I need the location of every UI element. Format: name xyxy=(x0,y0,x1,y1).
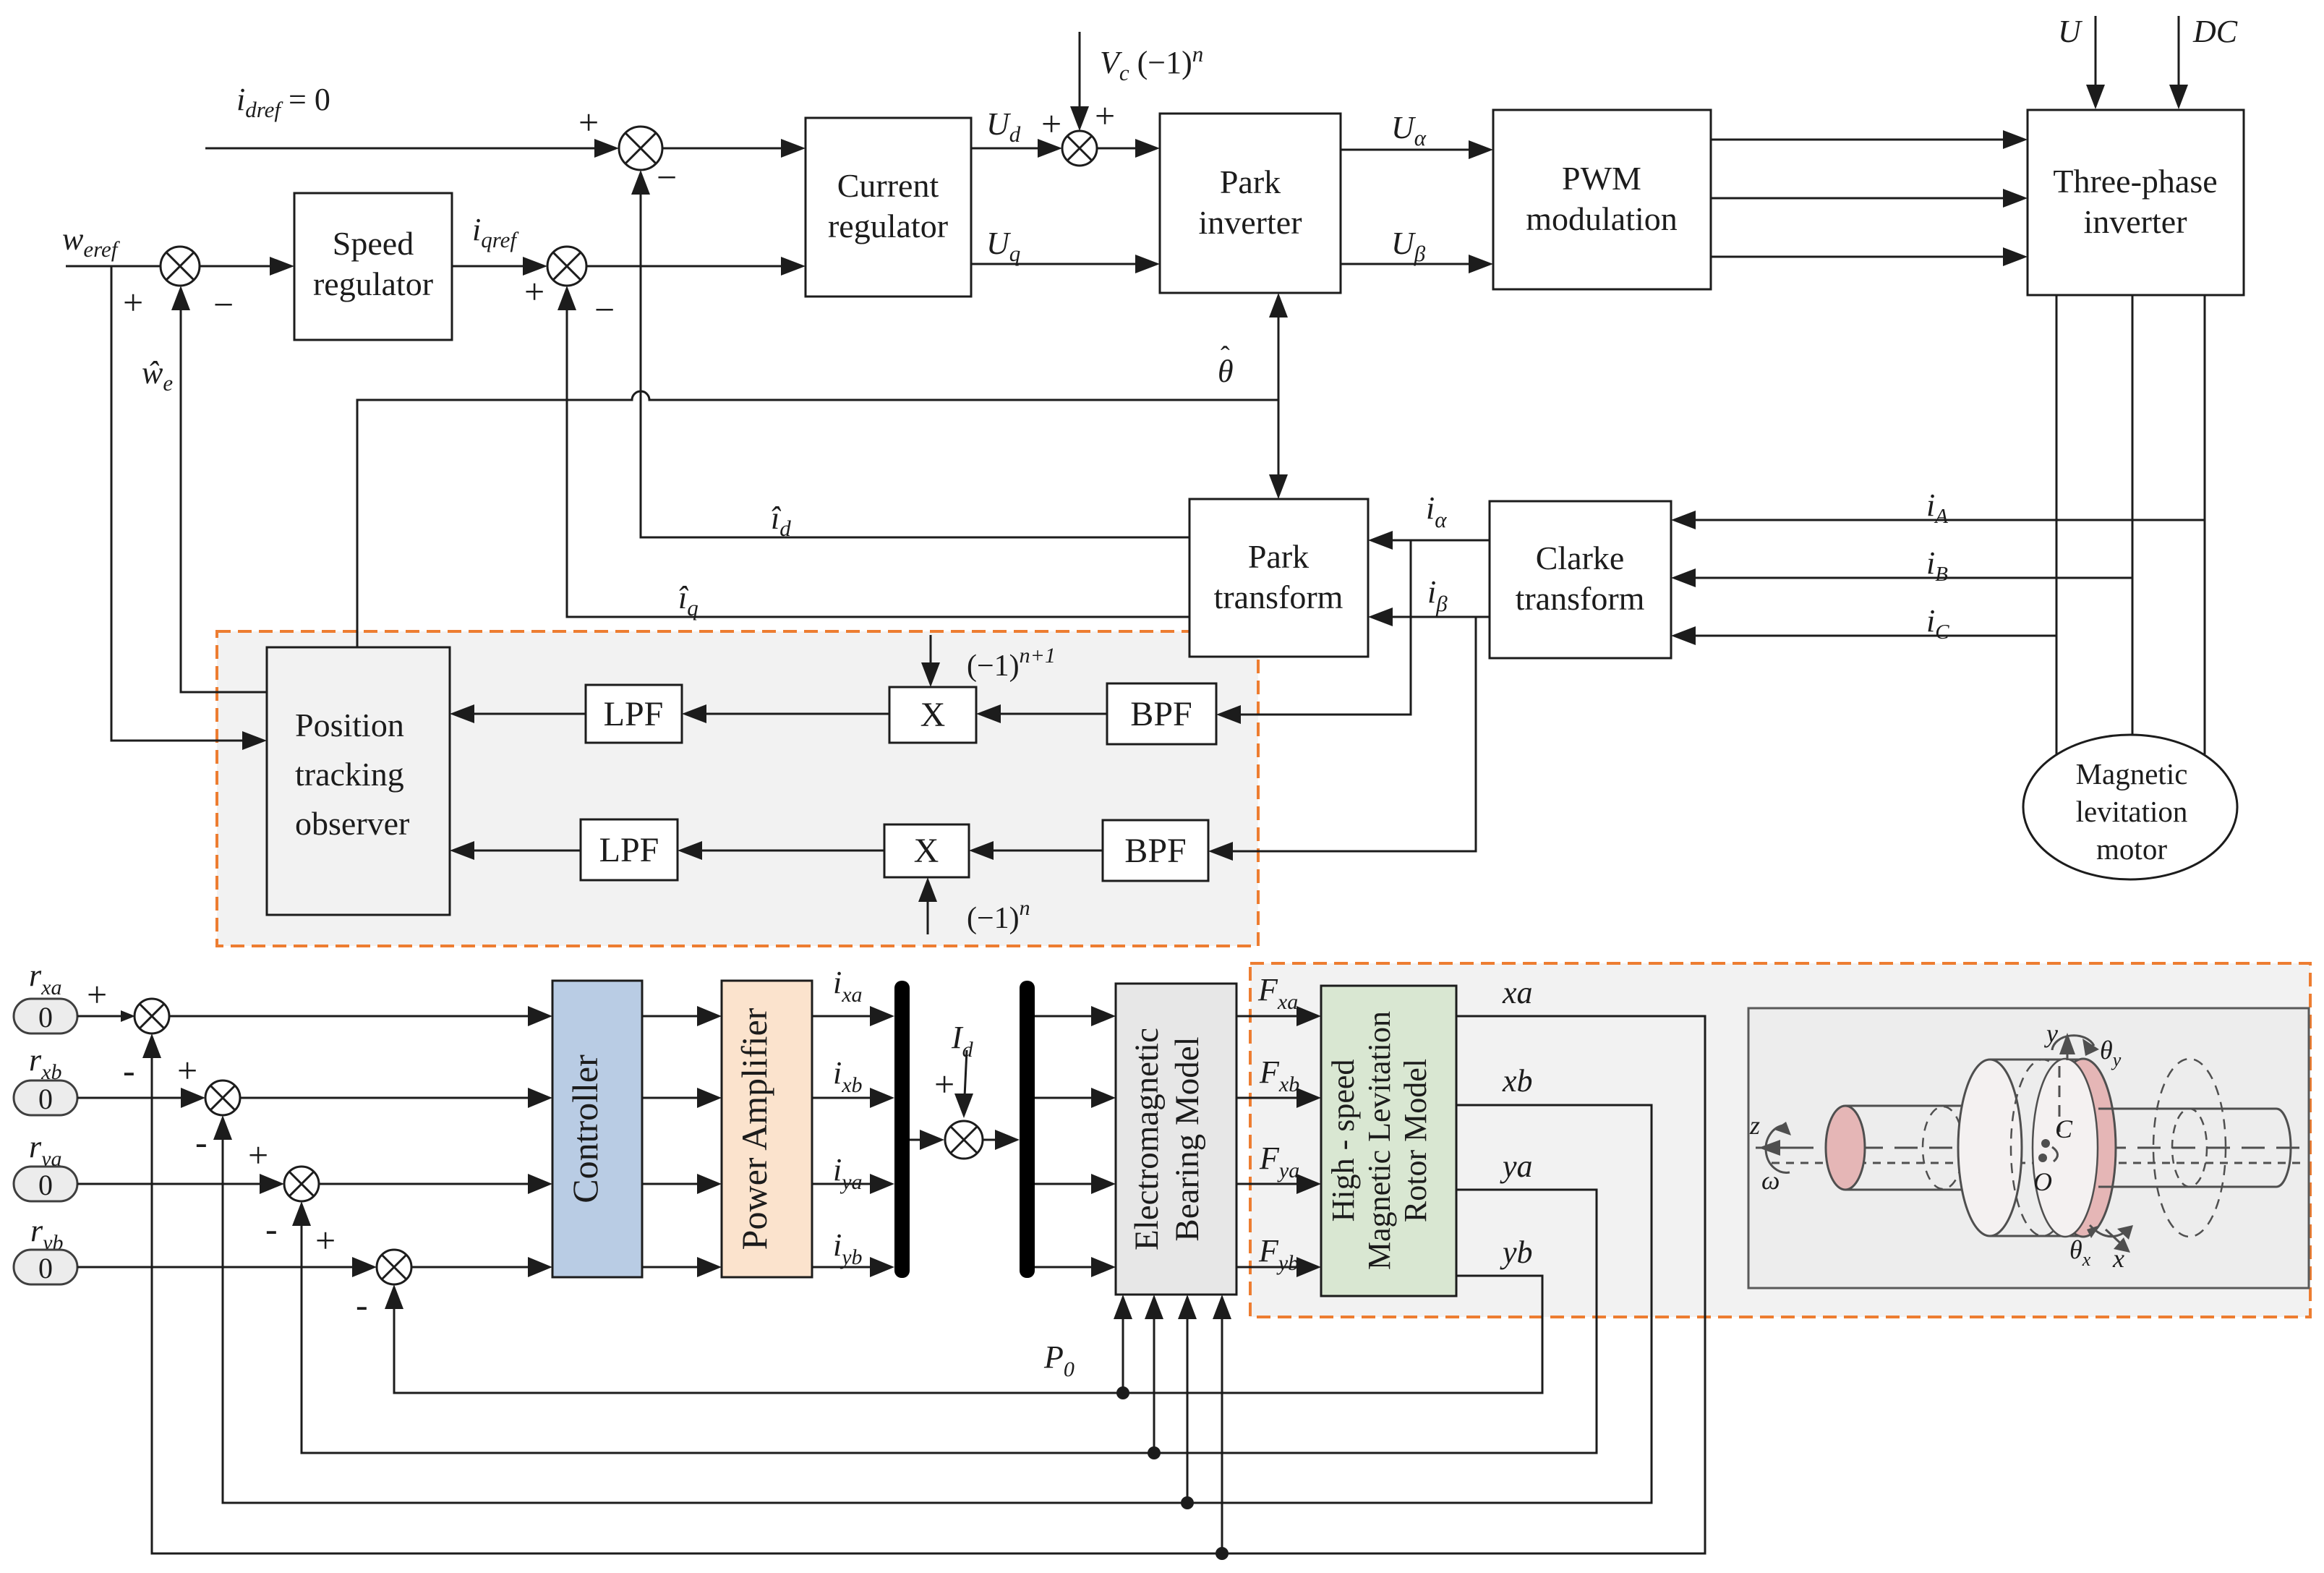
wire F_ya bearing to rotor xyxy=(1236,1174,1321,1194)
wire inverter phase A drop xyxy=(2056,295,2058,754)
svg-text:−: − xyxy=(594,289,615,330)
svg-text:0: 0 xyxy=(38,1001,53,1033)
wire U_alpha to PWM xyxy=(1341,140,1493,159)
wire bus1 to Id junction xyxy=(910,1130,944,1150)
small hook arrow at O xyxy=(2052,1147,2058,1161)
node label (-1)^n xyxy=(967,896,1030,935)
wire controller to amplifier row1 xyxy=(642,1006,722,1026)
summing junction S2 (speed) xyxy=(161,247,200,286)
block Position tracking observer xyxy=(267,647,450,915)
svg-text:inverter: inverter xyxy=(1198,204,1302,241)
svg-text:transform: transform xyxy=(1516,580,1645,617)
node label U_d xyxy=(986,106,1021,147)
svg-text:+: + xyxy=(1095,95,1115,136)
label O xyxy=(2033,1167,2052,1196)
dashed radius line to C xyxy=(2059,1066,2061,1132)
wire Id junction to bus2 xyxy=(983,1130,1020,1150)
wire bus2 to bearing row4 xyxy=(1035,1257,1116,1277)
svg-text:Electromagnetic: Electromagnetic xyxy=(1128,1028,1166,1250)
S4 plus sign right xyxy=(1095,95,1115,136)
wire V_c drop into S4 xyxy=(1070,32,1089,131)
right dashed bearing ellipse inner xyxy=(2172,1109,2207,1187)
wire bus2 to bearing row3 xyxy=(1035,1174,1116,1194)
node label i_alpha xyxy=(1426,490,1447,532)
wire X2 to LPF2 xyxy=(678,841,884,860)
svg-text:-: - xyxy=(356,1284,368,1325)
wire bus2 to bearing row2 xyxy=(1035,1088,1116,1108)
svg-text:Vc (−1)n: Vc (−1)n xyxy=(1100,41,1203,85)
node label i_C xyxy=(1926,603,1949,644)
y axis arrow xyxy=(2059,1033,2075,1060)
summing junction S4 (Vc) xyxy=(1062,131,1097,166)
node label F_ya xyxy=(1259,1141,1299,1182)
node label yb xyxy=(1500,1235,1533,1270)
block X row2 xyxy=(884,824,969,877)
wire F_xb bearing to rotor xyxy=(1236,1088,1321,1108)
summing junction J4 xyxy=(377,1250,411,1284)
wire yb feedback loop to J4 xyxy=(385,1276,1542,1393)
wire r_ya to J3 xyxy=(77,1174,284,1194)
wire BPF1 to X1 xyxy=(976,704,1107,723)
svg-text:+: + xyxy=(87,974,107,1015)
svg-text:motor: motor xyxy=(2096,832,2167,866)
block Power Amplifier xyxy=(722,981,812,1277)
node label i_yb xyxy=(833,1227,863,1269)
svg-text:0: 0 xyxy=(38,1252,53,1284)
svg-text:BPF: BPF xyxy=(1130,695,1192,733)
wire (-1)^n+1 into X1 xyxy=(921,635,940,687)
wire J4 to controller xyxy=(411,1257,552,1277)
block Park transform xyxy=(1189,499,1368,657)
svg-text:regulator: regulator xyxy=(828,208,948,244)
svg-text:Magnetic Levitation: Magnetic Levitation xyxy=(1362,1011,1397,1270)
svg-text:+: + xyxy=(177,1050,197,1091)
wire i_alpha branch to BPF1 xyxy=(1216,540,1411,724)
summing junction Id xyxy=(945,1121,983,1159)
wire theta-hat net xyxy=(357,293,1288,647)
svg-text:O: O xyxy=(2033,1167,2052,1196)
wire J2 to controller xyxy=(240,1088,552,1108)
wire PWM to inverter line 1 xyxy=(1711,130,2028,149)
svg-text:-: - xyxy=(195,1122,208,1162)
svg-text:ˆ: ˆ xyxy=(1221,341,1230,372)
block LPF row1 xyxy=(586,685,682,743)
svg-text:transform: transform xyxy=(1214,579,1343,615)
svg-text:0: 0 xyxy=(38,1169,53,1201)
node label i_xa xyxy=(833,965,863,1007)
wire bus2 to bearing row1 xyxy=(1035,1006,1116,1026)
left shaft pink end cap xyxy=(1826,1106,1865,1190)
block X row1 xyxy=(889,687,976,743)
block Three-phase inverter xyxy=(2028,110,2244,295)
reference capsule r_xb = 0 xyxy=(14,1080,77,1115)
node label F_yb xyxy=(1258,1233,1299,1275)
svg-text:ya: ya xyxy=(1500,1148,1533,1184)
left shaft dashed bearing ellipse xyxy=(1923,1107,1963,1189)
wire U_beta to PWM xyxy=(1341,255,1493,273)
svg-text:inverter: inverter xyxy=(2083,203,2187,240)
svg-text:+: + xyxy=(123,282,143,323)
block BPF row1 xyxy=(1107,683,1216,744)
theta_x rotation arc xyxy=(2087,1225,2133,1240)
wire S3 to current regulator xyxy=(586,257,806,276)
J2 plus sign xyxy=(177,1050,197,1091)
svg-text:+: + xyxy=(524,271,544,312)
pink disk band outer xyxy=(2051,1059,2116,1237)
wire controller to amplifier row3 xyxy=(642,1174,722,1194)
svg-text:Park: Park xyxy=(1248,538,1309,575)
wire xb feedback loop to J2 xyxy=(213,1105,1652,1503)
node label U_q xyxy=(986,226,1020,266)
wire iq-hat feedback xyxy=(557,286,1189,617)
S1 plus sign xyxy=(578,102,599,142)
node label i_qref xyxy=(472,212,519,252)
svg-text:levitation: levitation xyxy=(2076,795,2188,828)
svg-text:+: + xyxy=(1041,103,1061,144)
svg-text:Speed: Speed xyxy=(333,225,414,262)
wire amplifier to bus1 row4 xyxy=(812,1257,894,1277)
node label P_0 xyxy=(1043,1339,1075,1381)
left shaft body xyxy=(1845,1106,1993,1190)
node label i_ya xyxy=(833,1152,863,1194)
node label r_xb xyxy=(29,1042,61,1084)
svg-text:+: + xyxy=(578,102,599,142)
label theta_x xyxy=(2069,1235,2091,1270)
J3 plus sign xyxy=(248,1135,268,1175)
svg-text:−: − xyxy=(657,157,677,197)
wire (-1)^n into X2 xyxy=(918,877,937,934)
x axis arrow xyxy=(2106,1229,2130,1253)
svg-text:xb: xb xyxy=(1502,1063,1533,1099)
wire J1 to controller xyxy=(169,1006,552,1026)
svg-text:Park: Park xyxy=(1220,163,1281,200)
node label i_beta xyxy=(1427,574,1448,616)
wire amplifier to bus1 row1 xyxy=(812,1006,894,1026)
node label U_beta xyxy=(1391,226,1426,266)
wire inverter phase B drop xyxy=(2132,295,2134,735)
block High-speed Magnetic Levitation Rotor Model xyxy=(1321,986,1456,1296)
node label r_xa xyxy=(29,958,61,999)
svg-text:Clarke: Clarke xyxy=(1536,540,1625,576)
wire U_d to S4 xyxy=(971,139,1062,158)
ellipse Magnetic levitation motor xyxy=(2023,735,2237,879)
wire xa feedback loop to J1 xyxy=(142,1016,1705,1553)
node label id-hat xyxy=(771,500,791,541)
wire LPF2 to observer xyxy=(450,841,581,860)
bus bar 2 xyxy=(1020,981,1035,1278)
svg-text:+: + xyxy=(315,1220,336,1261)
z axis arrow xyxy=(1759,1140,1802,1156)
summing junction J2 xyxy=(205,1080,240,1115)
wire U_q to park inverter xyxy=(971,255,1160,273)
node label xb xyxy=(1502,1063,1533,1099)
wire i_alpha clarke to park xyxy=(1368,531,1490,550)
node label F_xb xyxy=(1259,1054,1299,1096)
middle cylinder top and bottom lines xyxy=(1990,1060,2083,1236)
wire w_eref branch to observer xyxy=(111,266,267,750)
node label w_eref xyxy=(62,221,121,262)
block Current regulator xyxy=(806,118,971,297)
J4 plus sign xyxy=(315,1220,336,1261)
svg-text:+: + xyxy=(248,1135,268,1175)
S2 minus sign xyxy=(213,284,234,325)
label theta_y xyxy=(2100,1036,2122,1070)
svg-text:Current: Current xyxy=(837,167,939,204)
observer dashed region box xyxy=(217,631,1258,946)
right shaft body xyxy=(2098,1109,2276,1187)
wire r_xa to J1 xyxy=(77,1010,135,1022)
wire U drop xyxy=(2086,16,2105,109)
center point C dot xyxy=(2041,1139,2050,1148)
summing junction J1 xyxy=(134,999,169,1033)
rotor model dashed region box xyxy=(1250,963,2310,1317)
wire P0 tap xa to bearing xyxy=(1213,1295,1231,1560)
node label xa xyxy=(1502,975,1533,1010)
summing junction S3 (iq) xyxy=(547,247,586,286)
wire controller to amplifier row4 xyxy=(642,1257,722,1277)
wire id-hat feedback xyxy=(631,170,1189,537)
Id junction plus sign xyxy=(934,1064,954,1104)
wire J3 to controller xyxy=(319,1174,552,1194)
wire F_yb bearing to rotor xyxy=(1236,1257,1321,1277)
wire i_beta branch to BPF2 xyxy=(1208,617,1476,861)
wire amplifier to bus1 row2 xyxy=(812,1088,894,1108)
block Controller xyxy=(552,981,642,1277)
J1 minus sign xyxy=(123,1050,135,1091)
node label V_c (-1)^n xyxy=(1100,41,1203,85)
svg-text:−: − xyxy=(213,284,234,325)
node label (-1)^n+1 xyxy=(967,644,1056,683)
label C xyxy=(2055,1114,2073,1143)
svg-text:x: x xyxy=(2112,1244,2124,1273)
wire DC drop xyxy=(2169,16,2188,109)
middle cylinder front ellipse xyxy=(1958,1060,2022,1236)
label y xyxy=(2044,1019,2058,1048)
S2 plus sign xyxy=(123,282,143,323)
z axis rotation arc xyxy=(1766,1122,1791,1172)
node label i_A xyxy=(1926,487,1948,528)
wire ya feedback loop to J3 xyxy=(292,1190,1597,1453)
svg-text:BPF: BPF xyxy=(1124,832,1186,870)
J2 minus sign xyxy=(195,1122,208,1162)
wire i_A to clarke xyxy=(1671,511,2205,529)
S4 plus sign left xyxy=(1041,103,1061,144)
svg-text:PWM: PWM xyxy=(1562,160,1641,197)
svg-text:0: 0 xyxy=(38,1083,53,1115)
bus bar 1 xyxy=(894,981,910,1278)
rotor illustration frame xyxy=(1748,1008,2309,1288)
reference capsule r_ya = 0 xyxy=(14,1167,77,1201)
block Speed regulator xyxy=(294,193,452,340)
wire amplifier to bus1 row3 xyxy=(812,1174,894,1194)
wire S1 to current regulator xyxy=(662,139,806,158)
svg-text:tracking: tracking xyxy=(295,756,404,793)
block Park inverter xyxy=(1160,114,1341,293)
svg-text:-: - xyxy=(123,1050,135,1091)
svg-text:ω: ω xyxy=(1761,1166,1780,1195)
node label i_B xyxy=(1926,545,1948,586)
node label F_xa xyxy=(1257,972,1298,1014)
svg-text:C: C xyxy=(2055,1114,2073,1143)
wire P0 tap yb to bearing xyxy=(1114,1295,1132,1399)
svg-text:Power Amplifier: Power Amplifier xyxy=(734,1007,774,1250)
wire r_xb to J2 xyxy=(77,1088,205,1108)
svg-text:-: - xyxy=(265,1208,278,1249)
svg-text:z: z xyxy=(1749,1111,1760,1140)
center point O dot xyxy=(2038,1154,2047,1162)
block BPF row2 xyxy=(1103,820,1208,881)
wire PWM to inverter line 3 xyxy=(1711,247,2028,266)
node label i_dref = 0 xyxy=(236,82,330,122)
wire P0 tap ya to bearing xyxy=(1145,1295,1163,1459)
svg-text:observer: observer xyxy=(295,805,409,842)
svg-text:Rotor Model: Rotor Model xyxy=(1398,1059,1433,1222)
block LPF row2 xyxy=(581,819,678,880)
wire speed regulator to S3 xyxy=(452,257,547,276)
wire controller to amplifier row2 xyxy=(642,1088,722,1108)
S1 minus sign xyxy=(657,157,677,197)
svg-text:Bearing Model: Bearing Model xyxy=(1169,1036,1206,1241)
wire S2 to speed regulator xyxy=(200,257,294,276)
svg-text:LPF: LPF xyxy=(604,695,664,733)
wire i_C to clarke xyxy=(1671,626,2056,645)
summing junction S1 (i_dref) xyxy=(619,127,662,170)
node label DC xyxy=(2192,14,2238,49)
wire X1 to LPF1 xyxy=(682,704,889,723)
wire r_yb to J4 xyxy=(77,1257,377,1277)
pink disk band inner xyxy=(2033,1059,2098,1237)
svg-text:Position: Position xyxy=(295,707,404,743)
svg-text:xa: xa xyxy=(1502,975,1533,1010)
svg-text:yb: yb xyxy=(1500,1235,1533,1270)
block Electromagnetic Bearing Model xyxy=(1116,984,1236,1295)
node label U (dc bus) xyxy=(2058,14,2083,49)
svg-text:Magnetic: Magnetic xyxy=(2076,757,2188,790)
wire P0 tap xb to bearing xyxy=(1178,1295,1197,1509)
wire F_xa bearing to rotor xyxy=(1236,1006,1321,1026)
svg-text:U: U xyxy=(2058,14,2083,49)
node label U_alpha xyxy=(1391,110,1427,150)
rotor axis dashed line short xyxy=(1772,1162,2304,1164)
wire PWM to inverter line 2 xyxy=(1711,189,2028,208)
right shaft end cap xyxy=(2276,1109,2291,1187)
svg-text:High - speed: High - speed xyxy=(1325,1060,1361,1222)
J4 minus sign xyxy=(356,1284,368,1325)
svg-text:X: X xyxy=(920,696,946,734)
J1 plus sign xyxy=(87,974,107,1015)
node label I_d xyxy=(951,1020,974,1062)
svg-text:DC: DC xyxy=(2192,14,2238,49)
wire i_dref input xyxy=(205,139,619,158)
rotor axis dashed line long xyxy=(1756,1147,2304,1149)
wire LPF1 to observer xyxy=(450,704,586,723)
theta_y rotation arc xyxy=(2052,1036,2099,1056)
svg-text:Controller: Controller xyxy=(565,1054,605,1203)
svg-text:+: + xyxy=(934,1064,954,1104)
block PWM modulation xyxy=(1493,110,1711,289)
wire I_d drop xyxy=(954,1050,973,1118)
summing junction J3 xyxy=(284,1167,319,1201)
wire w_e feedback from observer to S2 xyxy=(171,286,267,692)
svg-text:modulation: modulation xyxy=(1526,200,1678,237)
node label theta-hat xyxy=(1218,341,1234,389)
node label i_xb xyxy=(833,1055,863,1097)
wire BPF2 to X2 xyxy=(969,841,1103,860)
node label r_yb xyxy=(30,1213,63,1255)
wire i_B to clarke xyxy=(1671,568,2132,587)
middle cylinder dashed ellipse xyxy=(2011,1060,2075,1236)
label omega xyxy=(1761,1166,1780,1195)
wire w_eref input xyxy=(66,265,161,268)
node label ya xyxy=(1500,1148,1533,1184)
svg-text:LPF: LPF xyxy=(599,831,659,869)
node label iq-hat xyxy=(678,580,699,621)
right dashed bearing ellipse outer xyxy=(2153,1059,2226,1237)
block Clarke transform xyxy=(1490,501,1671,658)
svg-text:X: X xyxy=(914,832,939,870)
svg-text:Three-phase: Three-phase xyxy=(2053,163,2217,200)
S3 minus sign xyxy=(594,289,615,330)
reference capsule r_yb = 0 xyxy=(14,1250,77,1284)
reference capsule r_xa = 0 xyxy=(14,999,77,1033)
wire S4 to park inverter xyxy=(1097,139,1160,158)
label x xyxy=(2112,1244,2124,1273)
S3 plus sign xyxy=(524,271,544,312)
svg-text:regulator: regulator xyxy=(313,265,433,302)
node label w_e hat xyxy=(142,355,173,396)
label z xyxy=(1749,1111,1760,1140)
wire inverter phase C drop xyxy=(2204,295,2206,754)
wire i_beta clarke to park xyxy=(1368,608,1490,626)
node label r_ya xyxy=(29,1129,61,1171)
J3 minus sign xyxy=(265,1208,278,1249)
